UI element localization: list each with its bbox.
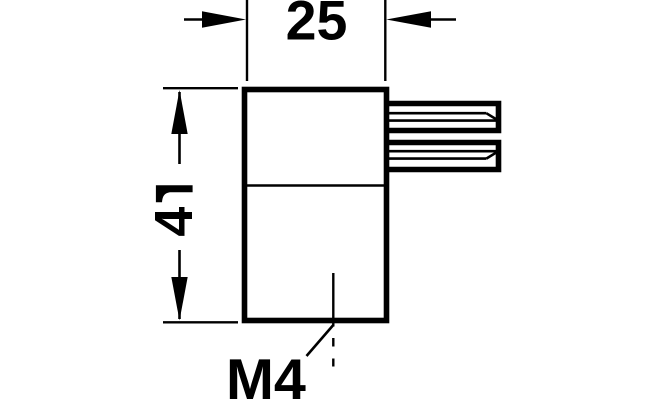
height dimension top extension line [163, 87, 238, 89]
thread axis centerline dash 2 [332, 359, 334, 367]
thread axis centerline solid segment [332, 273, 334, 327]
height dimension bottom extension line [163, 321, 238, 323]
threaded stud lower chamfer line [486, 151, 498, 158]
height dimension line lower segment [178, 250, 181, 319]
height dimension line upper segment [178, 92, 181, 164]
threaded stud upper lower thread line [387, 119, 499, 122]
width dimension left extension line [246, 0, 248, 81]
threaded stud upper chamfer line [486, 113, 498, 120]
threaded stud lower thread root line [387, 157, 486, 160]
height dimension bottom arrowhead [171, 277, 187, 321]
height dimension label 41 digit 1 [156, 185, 193, 202]
threaded stud upper section outline [384, 104, 499, 131]
svg-text:M4: M4 [226, 348, 306, 400]
svg-text:4: 4 [144, 207, 204, 237]
width dimension right arrowhead [386, 11, 431, 27]
knob body divider line [247, 184, 384, 186]
width dimension left arrowhead [202, 11, 246, 27]
knob body outline [245, 90, 387, 321]
width dimension left arrow tail [184, 18, 206, 21]
threaded stud lower section outline [384, 143, 499, 170]
height dimension top arrowhead [171, 90, 187, 134]
threaded stud lower upper thread line [387, 150, 499, 153]
svg-text:25: 25 [286, 0, 348, 52]
thread axis centerline dash 1 [332, 338, 334, 347]
width dimension right arrow tail [430, 18, 456, 21]
threaded stud upper thread root line [387, 112, 486, 115]
M4 leader line [307, 325, 334, 356]
width dimension right extension line [384, 0, 386, 81]
